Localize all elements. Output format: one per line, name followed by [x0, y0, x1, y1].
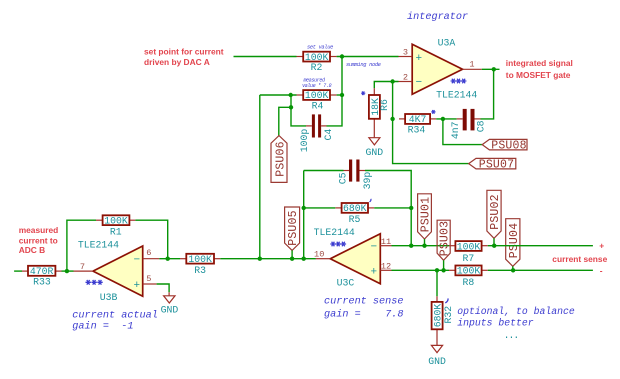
hierarchical label PSU01: [418, 194, 433, 239]
op-amp U3A: [399, 38, 482, 101]
svg-text:TLE2144: TLE2144: [314, 227, 355, 238]
svg-text:current sense: current sense: [552, 254, 607, 264]
svg-text:set point for current: set point for current: [144, 46, 224, 56]
resistor R5: [335, 203, 374, 225]
wire R34 right to C8: [436, 118, 457, 120]
svg-text:PSU07: PSU07: [479, 158, 515, 171]
junction pin6 node: [166, 257, 170, 261]
svg-text:R32: R32: [443, 306, 454, 324]
junction PSU05: [290, 257, 294, 261]
svg-text:+: +: [599, 241, 604, 251]
note: integrated signal to MOSFET gate: [506, 58, 573, 80]
note quote R5: [370, 199, 372, 202]
svg-text:100K: 100K: [305, 90, 329, 101]
svg-text:current sense: current sense: [324, 296, 403, 307]
svg-text:100K: 100K: [457, 241, 481, 252]
hierarchical label PSU08: [482, 139, 527, 152]
svg-text:inputs better: inputs better: [457, 318, 534, 329]
svg-text:−: −: [133, 254, 140, 266]
hierarchical label PSU02: [487, 190, 502, 238]
hierarchical label PSU05: [285, 207, 300, 250]
svg-text:GND: GND: [428, 356, 446, 367]
svg-text:set value: set value: [307, 45, 333, 51]
wire PSU03 stub: [443, 260, 445, 270]
ground below R32: [428, 345, 446, 366]
svg-text:100K: 100K: [104, 215, 128, 226]
wire R5 left: [304, 207, 336, 209]
note: optional, to balance inputs better: [457, 306, 575, 329]
node summing column: [327, 57, 343, 126]
wire R8 right to edge: [488, 269, 593, 271]
resistor R6: [369, 88, 390, 137]
svg-text:6: 6: [146, 248, 151, 258]
junction PSU03 at pin12: [441, 268, 445, 272]
wire PSU02 stub: [493, 238, 495, 245]
note: current actual gain = -1: [72, 309, 158, 332]
svg-text:optional, to balance: optional, to balance: [457, 306, 575, 317]
svg-text:R33: R33: [33, 277, 51, 288]
svg-text:PSU01: PSU01: [420, 197, 433, 233]
svg-text:measured: measured: [19, 225, 59, 235]
capacitor C4: [299, 114, 334, 152]
svg-text:TLE2144: TLE2144: [78, 239, 119, 250]
svg-text:100K: 100K: [457, 266, 481, 277]
note: measured current to ADC B: [19, 225, 59, 255]
svg-text:PSU06: PSU06: [275, 141, 288, 177]
svg-text:gain = -1: gain = -1: [72, 320, 133, 332]
wire PSU05 stub: [291, 250, 293, 258]
svg-text:680K: 680K: [343, 203, 367, 214]
wire C8 right up to output line: [481, 69, 494, 119]
svg-text:PSU08: PSU08: [491, 140, 527, 153]
wire node down to PSU08: [443, 119, 482, 145]
svg-text:+: +: [133, 280, 140, 292]
resistor R33: [22, 266, 62, 288]
svg-text:100K: 100K: [188, 254, 212, 265]
note: current sense gain = 7.8: [324, 296, 403, 320]
svg-text:GND: GND: [161, 305, 179, 316]
fb column down to output line: [303, 171, 305, 259]
junction R5 left: [302, 206, 306, 210]
capacitor C8: [450, 109, 486, 139]
capacitor C5: [338, 160, 373, 190]
wire pin12 to R8: [392, 269, 450, 271]
junction C5R5 column at pin11: [409, 244, 413, 248]
junction output node: [492, 67, 496, 71]
resistor R34: [399, 114, 436, 136]
svg-text:R34: R34: [408, 125, 426, 136]
wire U3B pin5 to GND: [157, 284, 170, 292]
note: set point for current driven by DAC A: [144, 46, 224, 67]
wire R4 right to summing column: [337, 94, 342, 96]
junction R34 left on pin2 column: [390, 117, 394, 121]
wire pin2 column down to PSU07: [393, 82, 469, 164]
svg-text:current actual: current actual: [72, 309, 158, 321]
svg-text:...: ...: [504, 330, 519, 341]
svg-text:gain = 7.8: gain = 7.8: [324, 308, 403, 320]
junction PSU04 node: [511, 268, 515, 272]
svg-text:current to: current to: [19, 235, 58, 245]
svg-text:ADC B: ADC B: [19, 245, 46, 255]
hierarchical label PSU04: [506, 219, 521, 267]
wire to C4 left: [291, 107, 306, 126]
svg-text:to MOSFET gate: to MOSFET gate: [506, 70, 571, 80]
wire R5 right: [374, 207, 411, 209]
wire R32 column: [436, 270, 438, 296]
wire R3 right to U3C output: [220, 258, 316, 260]
wire long column to output line: [259, 95, 261, 259]
wire U3A pin2 to R6 top: [374, 82, 398, 89]
junction below R4: [289, 105, 293, 109]
wire pin11 to R7: [392, 245, 450, 247]
svg-text:C4: C4: [323, 129, 334, 141]
svg-text:470R: 470R: [30, 266, 54, 277]
svg-text:U3C: U3C: [337, 278, 355, 289]
svg-text:TLE2144: TLE2144: [436, 89, 477, 100]
wire node to PSU06: [279, 95, 291, 136]
svg-text:U3A: U3A: [438, 38, 456, 49]
svg-text:+: +: [415, 53, 422, 65]
svg-text:4K7: 4K7: [409, 114, 427, 125]
wire U3A output: [482, 68, 500, 70]
svg-text:R5: R5: [349, 214, 361, 225]
wire from DAC note to R2: [234, 56, 297, 58]
svg-text:R7: R7: [463, 253, 475, 264]
svg-text:R4: R4: [312, 101, 324, 112]
wire R33 left: [14, 270, 22, 272]
svg-text:PSU02: PSU02: [489, 194, 502, 230]
svg-text:12: 12: [381, 262, 391, 272]
wire PSU04 stub: [512, 266, 514, 270]
svg-text:PSU03: PSU03: [439, 221, 452, 257]
junction R4 left: [289, 93, 293, 97]
op-amp U3B: [74, 239, 160, 302]
svg-text:summing node: summing node: [346, 62, 381, 68]
svg-text:integrator: integrator: [407, 11, 468, 23]
junction fb column: [302, 257, 306, 261]
svg-text:7: 7: [80, 262, 85, 272]
svg-text:10: 10: [314, 250, 324, 260]
svg-text:5: 5: [146, 274, 151, 284]
junction PSU01 at pin11: [422, 244, 426, 248]
svg-text:−: −: [415, 77, 422, 89]
svg-text:GND: GND: [365, 147, 383, 158]
svg-text:100p: 100p: [299, 129, 310, 153]
svg-text:PSU05: PSU05: [287, 210, 300, 246]
svg-text:C8: C8: [476, 120, 487, 132]
note measured value * 7.8: [302, 77, 332, 89]
svg-text:U3B: U3B: [100, 292, 118, 303]
svg-text:+: +: [370, 267, 377, 279]
junction R4 right: [340, 93, 344, 97]
junction R34-C8 node: [441, 117, 445, 121]
wire pin6 to R3: [159, 258, 180, 260]
wire feedback up to R1: [67, 220, 96, 271]
wire R2 to U3A pin 3: [337, 56, 399, 58]
hierarchical label PSU03: [437, 220, 452, 260]
resistor R2: [297, 52, 337, 73]
junction pin2: [390, 79, 394, 83]
resistor R32: [432, 296, 454, 345]
svg-text:1: 1: [469, 60, 474, 70]
svg-text:R2: R2: [311, 62, 323, 73]
svg-text:2: 2: [403, 73, 408, 83]
op-amp U3C: [314, 227, 392, 289]
note quote R32: [445, 298, 448, 303]
junction U3B output node: [65, 269, 69, 273]
svg-text:4n7: 4n7: [450, 121, 461, 139]
junction R5 right: [409, 206, 413, 210]
svg-text:R3: R3: [194, 265, 206, 276]
svg-text:C5: C5: [338, 172, 349, 184]
svg-text:driven by DAC A: driven by DAC A: [144, 57, 210, 67]
svg-text:R6: R6: [379, 99, 390, 111]
svg-text:11: 11: [381, 237, 391, 247]
hierarchical label PSU07: [469, 158, 516, 171]
hierarchical label PSU06: [271, 136, 288, 183]
resistor R1: [96, 215, 135, 237]
ground below U3B pin5: [161, 292, 179, 315]
wire C5 left to fb column: [304, 170, 344, 172]
wire R33 right to U3B output: [62, 270, 74, 272]
ground below R6: [365, 138, 383, 158]
note star R34: [431, 110, 435, 114]
svg-text:-: -: [600, 265, 603, 275]
svg-text:PSU04: PSU04: [508, 223, 521, 259]
junction long column: [258, 257, 262, 261]
wire R7 right to edge: [488, 245, 593, 247]
svg-text:3: 3: [403, 48, 408, 58]
wire R1 right down to pin6 line: [135, 220, 167, 259]
note star R6: [361, 91, 365, 95]
resistor R8: [449, 266, 488, 289]
resistor R3: [180, 254, 220, 276]
wire R4 left node: [260, 94, 297, 96]
wire PSU01 stub: [424, 239, 426, 246]
svg-text:39p: 39p: [362, 172, 373, 190]
svg-text:R1: R1: [110, 226, 122, 237]
wire C5 right down to pin11 line: [365, 171, 411, 246]
junction PSU02 node: [492, 244, 496, 248]
svg-text:−: −: [370, 242, 377, 254]
junction R32 at pin12: [435, 268, 439, 272]
junction at R2 output: [340, 54, 344, 58]
svg-text:value * 7.8: value * 7.8: [302, 83, 332, 89]
svg-text:R8: R8: [463, 277, 475, 288]
svg-text:integrated signal: integrated signal: [506, 58, 573, 68]
resistor R7: [449, 241, 488, 264]
resistor R4: [297, 90, 337, 112]
